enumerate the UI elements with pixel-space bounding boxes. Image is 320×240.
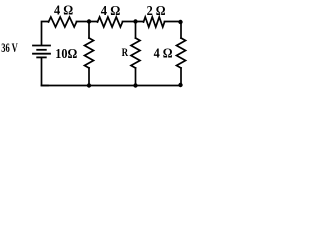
svg-text:36 V: 36 V (1, 40, 18, 55)
wire between R1 and R2 (77, 21, 98, 23)
battery V1 short plate (37, 49, 46, 51)
battery V1 long plate bottom (33, 53, 50, 55)
svg-text:2 Ω: 2 Ω (147, 3, 166, 18)
resistor R3 2ohm horizontal (144, 17, 165, 27)
resistor R6 4ohm right vertical wire top (180, 22, 182, 39)
node dot top at R4 (87, 19, 91, 23)
wire battery to bottom-left corner (42, 57, 49, 85)
wire top-left segment (42, 22, 49, 45)
node dot top-right corner (178, 20, 182, 24)
svg-text:4 Ω: 4 Ω (154, 46, 173, 61)
battery V1 short plate bottom (37, 56, 46, 58)
battery V1 36V long plate top (33, 45, 50, 47)
bottom wire (42, 85, 182, 87)
resistor R4 10ohm vertical zigzag (85, 38, 94, 68)
resistor R6 4ohm right vertical zigzag (177, 38, 186, 68)
resistor R5 (R) vertical branch wire top (135, 22, 137, 39)
resistor R2 4ohm horizontal (98, 17, 123, 27)
wire between R2 and R3 (123, 21, 144, 23)
resistor R4 10ohm vertical branch wire top (88, 22, 90, 39)
wire R3 to top-right corner (165, 21, 182, 23)
svg-text:R: R (122, 45, 129, 59)
resistor R5 (R) vertical zigzag (131, 38, 140, 68)
resistor R1 4ohm horizontal (49, 17, 77, 27)
node dot bottom-right corner (178, 83, 182, 87)
node dot bottom at R5 (133, 83, 137, 87)
resistor R4 wire to bottom (88, 68, 90, 86)
resistor R5 wire to bottom (135, 68, 137, 86)
svg-text:10Ω: 10Ω (55, 46, 77, 61)
node dot bottom at R4 (87, 83, 91, 87)
svg-text:4 Ω: 4 Ω (54, 3, 73, 18)
resistor R6 wire to bottom-right corner (180, 68, 182, 86)
svg-text:4 Ω: 4 Ω (101, 3, 121, 18)
node dot top at R5 (133, 19, 137, 23)
